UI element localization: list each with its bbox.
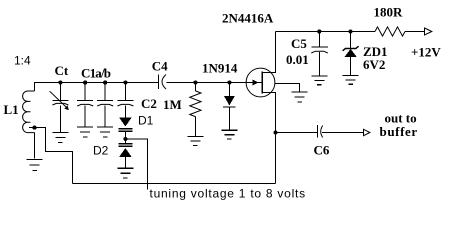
ground (below 1N914): [221, 130, 237, 139]
wire drain of 2N4416A to top rail: [263, 32, 276, 73]
ground (below C1a): [77, 127, 93, 137]
varactor diode D2: [124, 139, 126, 144]
svg-text:C5: C5: [291, 36, 307, 51]
capacitor C1b: [104, 83, 106, 101]
wire top supply rail: [276, 31, 376, 33]
wire 180R to +12V arrow: [405, 31, 425, 33]
wire source junction to C6: [276, 132, 318, 134]
node rail-1M junction: [193, 80, 197, 84]
ground (below 1M): [187, 137, 203, 146]
svg-text:1M: 1M: [163, 97, 182, 112]
svg-text:Ct: Ct: [55, 63, 69, 78]
wire bottom rail (tuning voltage bus): [73, 183, 276, 185]
varactor diode D1: [119, 118, 132, 127]
svg-text:tuning voltage 1 to 8 volts: tuning voltage 1 to 8 volts: [150, 187, 306, 201]
zener diode ZD1: [350, 32, 352, 49]
capacitor C5: [318, 32, 320, 47]
wire L1 bottom to ground: [34, 133, 36, 159]
node rail-ZD1 junction: [349, 29, 353, 33]
ground (case of 2N4416A): [292, 92, 308, 102]
trimmer arrow of Ct: [50, 91, 69, 110]
wire case pin of 2N4416A to ground: [275, 84, 300, 92]
node rail-C5 junction: [317, 29, 321, 33]
resistor 180R: [375, 27, 405, 36]
svg-text:2N4416A: 2N4416A: [222, 11, 274, 26]
wire C6 to output arrow: [322, 132, 364, 134]
svg-text:D1: D1: [138, 114, 154, 128]
capacitor C2: [124, 83, 126, 101]
svg-text:L1: L1: [4, 102, 19, 117]
svg-text:buffer: buffer: [380, 124, 418, 139]
diode 1N914: [228, 83, 230, 97]
node D1/D2 junction: [123, 137, 127, 141]
node rail-1N914 junction: [227, 80, 231, 84]
node rail-C1a junction: [83, 80, 87, 84]
capacitor C1a: [84, 83, 86, 101]
capacitor C4 (series): [158, 75, 160, 90]
node rail-Ct junction: [58, 80, 62, 84]
ground (below C1b): [97, 127, 113, 137]
svg-text:C4: C4: [152, 59, 168, 74]
transistor U1 2N4416A (JFET): [246, 68, 275, 97]
node tap on L1 (junction dot): [32, 126, 36, 130]
wire tuning voltage text leader tick: [147, 184, 149, 190]
svg-text:C1a/b: C1a/b: [81, 66, 111, 81]
ground (below ZD1): [343, 76, 359, 85]
svg-text:1N914: 1N914: [202, 61, 238, 76]
svg-text:6V2: 6V2: [363, 57, 385, 72]
resistor 1M: [194, 83, 196, 91]
ground (below L1): [27, 160, 43, 171]
wire L1 tap to bottom rail (staircase): [29, 128, 73, 184]
channel bar of 2N4416A: [261, 72, 263, 94]
ground (below D2): [117, 168, 133, 178]
node +12V terminal arrow: [425, 28, 432, 35]
svg-text:+12V: +12V: [411, 45, 441, 60]
node output terminal arrow: [364, 129, 370, 135]
svg-text:180R: 180R: [374, 5, 404, 20]
wire source of 2N4416A to bottom rail: [263, 93, 276, 184]
capacitor Ct (trimmer): [59, 83, 61, 101]
wire D1/D2 junction to tuning bus: [125, 139, 147, 184]
svg-text:C2: C2: [141, 96, 157, 111]
wire main rail right segment (C4 to FET gate): [167, 82, 262, 84]
capacitor C6: [317, 125, 319, 138]
wire main rail left segment (L1 top to C4): [35, 83, 159, 92]
inductor L1: [23, 91, 35, 133]
node source/C6 junction: [273, 130, 277, 134]
gate arrow of 2N4416A: [252, 80, 258, 86]
ground (below C5): [311, 76, 327, 85]
svg-text:C6: C6: [314, 143, 330, 158]
node rail-C1b junction: [103, 80, 107, 84]
svg-text:0.01: 0.01: [286, 52, 309, 67]
node rail-C2 junction: [123, 80, 127, 84]
svg-text:1:4: 1:4: [14, 54, 31, 68]
ground (below Ct): [52, 133, 68, 143]
svg-text:D2: D2: [93, 144, 109, 158]
